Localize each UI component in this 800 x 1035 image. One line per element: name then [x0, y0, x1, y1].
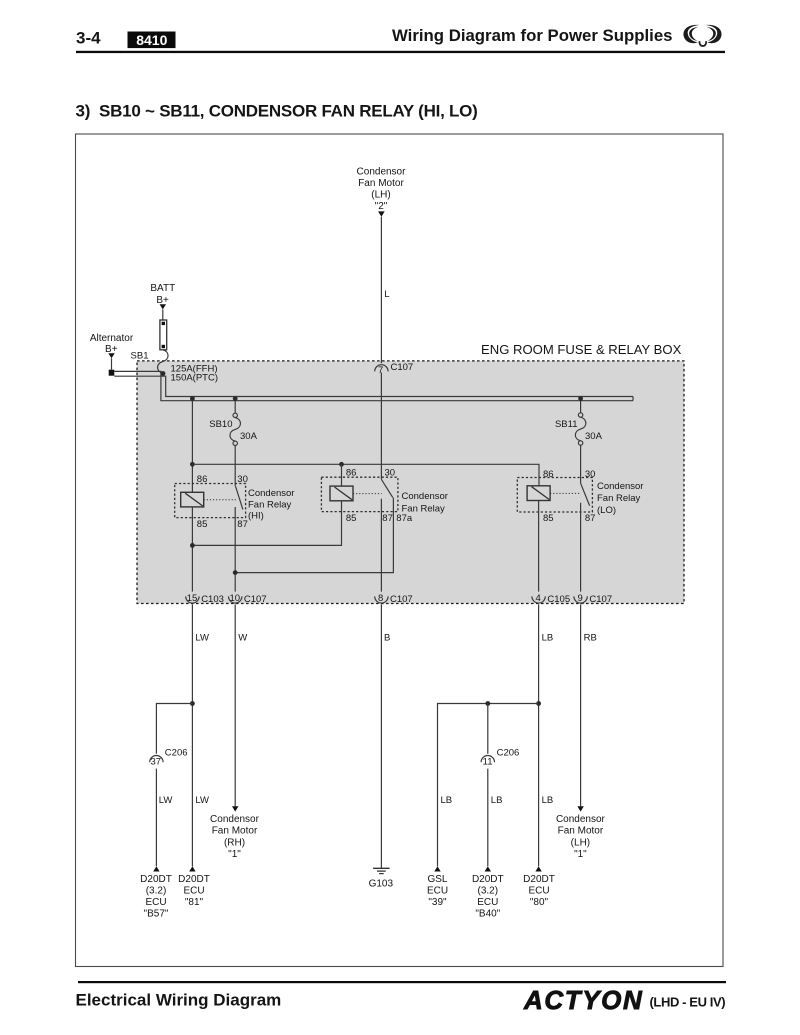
svg-text:"B40": "B40" [475, 908, 500, 919]
connector C206 pin 37 [150, 747, 188, 767]
svg-text:SB10: SB10 [209, 419, 232, 430]
wire relay1 pin87 down [234, 507, 236, 592]
svg-text:(LH): (LH) [371, 190, 390, 201]
wire relay2 pin85 down to link [192, 501, 341, 546]
svg-text:8410: 8410 [136, 32, 167, 48]
svg-text:Fan Motor: Fan Motor [212, 826, 258, 837]
fuse SB10 30A [230, 413, 241, 445]
svg-text:"1": "1" [228, 849, 241, 860]
svg-text:ECU: ECU [145, 897, 166, 908]
svg-text:D20DT: D20DT [523, 874, 555, 885]
wire LB from C105-4 down with branches [538, 604, 540, 866]
connector C107 pin 9 [574, 593, 612, 605]
svg-text:BATT: BATT [150, 283, 175, 294]
svg-text:ACTYON: ACTYON [523, 985, 643, 1015]
junction relay1/relay2 85 link [190, 543, 195, 548]
svg-text:8: 8 [378, 593, 383, 604]
wire LB middle branch upper [487, 704, 489, 754]
svg-text:9: 9 [578, 593, 583, 604]
svg-text:Condensor: Condensor [597, 481, 643, 492]
relay K2 Condensor Fan Relay (middle) [321, 468, 448, 524]
junction coil supply relay2 [339, 462, 344, 467]
wire bus to relay1 pin86 coil [191, 401, 193, 493]
svg-text:B: B [384, 633, 390, 644]
svg-text:C105: C105 [547, 594, 570, 605]
svg-text:L: L [384, 289, 389, 300]
svg-text:W: W [238, 633, 247, 644]
svg-text:Wiring Diagram for Power Suppl: Wiring Diagram for Power Supplies [392, 26, 673, 45]
relay K1 Condensor Fan Relay (HI) [175, 474, 295, 530]
terminal arrow to D20DT ECU 81 [189, 866, 195, 871]
svg-text:86: 86 [543, 469, 554, 480]
node D20DT ECU 81 [178, 874, 210, 908]
svg-text:30A: 30A [240, 431, 258, 442]
svg-text:ECU: ECU [528, 885, 549, 896]
footer rule [78, 981, 726, 983]
svg-text:GSL: GSL [427, 874, 447, 885]
wire LB branch to left [438, 704, 539, 867]
svg-text:85: 85 [197, 519, 208, 530]
wire relay1 pin85 down [191, 507, 193, 592]
terminal arrow to D20DT (3.2) ECU B40 [485, 866, 491, 871]
svg-text:Condensor: Condensor [402, 491, 448, 502]
svg-text:ECU: ECU [427, 885, 448, 896]
connector C105 pin 4 [532, 593, 570, 605]
svg-text:C206: C206 [165, 747, 188, 758]
svg-text:"2": "2" [375, 201, 388, 212]
ssangyong logo right wing [705, 25, 721, 43]
svg-text:Fan Motor: Fan Motor [358, 178, 404, 189]
connector C206 pin 11 [481, 747, 519, 767]
wire relay3 pin85 down [538, 501, 540, 592]
svg-text:(LO): (LO) [597, 505, 616, 516]
wire LW left branch lower [155, 769, 157, 867]
svg-text:G103: G103 [369, 879, 394, 890]
wire alternator to terminal [111, 358, 113, 370]
svg-text:10: 10 [230, 593, 241, 604]
svg-text:86: 86 [346, 468, 357, 479]
svg-text:30: 30 [585, 469, 596, 480]
svg-text:RB: RB [584, 633, 597, 644]
alternator terminal [109, 370, 115, 376]
terminal arrow to D20DT (3.2) ECU B57 [153, 866, 159, 871]
node D20DT ECU 80 [523, 874, 555, 908]
connector C107 pin 10 [229, 593, 267, 605]
svg-text:7: 7 [378, 365, 383, 376]
svg-text:86: 86 [197, 474, 208, 485]
wire relay2 pin87 down [380, 499, 382, 592]
svg-text:150A(PTC): 150A(PTC) [171, 373, 219, 384]
node Condensor Fan Motor (LH) 2 (top) [357, 167, 407, 217]
relay K3 Condensor Fan Relay (LO) [517, 469, 643, 524]
svg-text:30: 30 [385, 468, 396, 479]
svg-text:3-4: 3-4 [76, 29, 101, 48]
heavy bus: alternator feed and main busbar (hollow double line) [114, 371, 633, 400]
junction LB middle branch [485, 701, 490, 706]
junction bus to relay1-86 [190, 396, 195, 401]
svg-text:(3.2): (3.2) [478, 885, 499, 896]
wire LW from C103-15 down with branch [191, 604, 193, 866]
junction coil supply left [190, 462, 195, 467]
connector C107 pin 7 [375, 362, 414, 376]
connector C107 pin 8 [375, 593, 413, 605]
terminal arrow to GSL ECU 39 [434, 866, 440, 871]
svg-text:87: 87 [382, 513, 393, 524]
wire W from C107-10 down [234, 604, 236, 806]
svg-text:Fan Relay: Fan Relay [402, 503, 446, 514]
wire L from C107-7 through bus to relay2 pin30 [380, 373, 382, 480]
node GSL ECU 39 [427, 874, 448, 908]
svg-text:LW: LW [195, 633, 209, 644]
svg-text:30: 30 [237, 474, 248, 485]
ssangyong logo horseshoe [700, 41, 707, 46]
node D20DT (3.2) ECU B40 [472, 874, 504, 920]
wire relay3 pin87 down [580, 503, 582, 592]
fusible link SB1 S-curve [158, 350, 169, 374]
wire SB10 to relay1 pin30 [234, 446, 236, 487]
svg-text:87: 87 [585, 513, 596, 524]
svg-text:ECU: ECU [477, 897, 498, 908]
ENG ROOM FUSE & RELAY BOX enclosure [137, 361, 684, 604]
svg-text:LW: LW [195, 795, 209, 806]
terminal arrow to D20DT ECU 80 [535, 866, 541, 871]
svg-text:C107: C107 [244, 594, 267, 605]
svg-text:ENG ROOM FUSE & RELAY BOX: ENG ROOM FUSE & RELAY BOX [481, 342, 682, 357]
svg-text:C107: C107 [390, 594, 413, 605]
node Condensor Fan Motor (LH) 1 [556, 814, 606, 860]
svg-text:3) SB10 ~ SB11, CONDENSOR FAN: 3) SB10 ~ SB11, CONDENSOR FAN RELAY (HI,… [76, 102, 478, 121]
svg-text:15: 15 [187, 593, 198, 604]
wire BATT to fusible link [162, 309, 164, 320]
svg-text:"1": "1" [574, 849, 587, 860]
wire SB11 to relay3 pin30 [580, 445, 582, 483]
svg-text:Condensor: Condensor [357, 167, 407, 178]
svg-text:"B57": "B57" [144, 908, 169, 919]
svg-text:Fan Relay: Fan Relay [597, 493, 641, 504]
svg-text:87: 87 [237, 519, 248, 530]
label 125A(FFH) 150A(PTC) [171, 363, 219, 383]
wire coil supply rail [192, 464, 539, 486]
svg-text:Condensor: Condensor [556, 814, 606, 825]
svg-text:D20DT: D20DT [178, 874, 210, 885]
svg-text:"80": "80" [530, 897, 549, 908]
svg-text:30A: 30A [585, 431, 603, 442]
wire coil supply to relay2 pin86 [341, 464, 343, 486]
junction bus to SB10 [233, 396, 238, 401]
terminal arrow to condensor fan motor RH [232, 806, 238, 811]
junction relay1-87 / relay2-87a link [233, 570, 238, 575]
wire LB middle branch lower [487, 769, 489, 867]
svg-text:D20DT: D20DT [472, 874, 504, 885]
svg-text:LB: LB [441, 795, 453, 806]
svg-text:Alternator: Alternator [90, 333, 134, 344]
wire RB from C107-9 down [580, 604, 582, 806]
svg-text:SB11: SB11 [555, 419, 578, 430]
svg-text:"81": "81" [185, 897, 204, 908]
wire L from fan motor LH to C107-7 [380, 217, 382, 363]
svg-text:Condensor: Condensor [210, 814, 260, 825]
svg-text:"39": "39" [428, 897, 447, 908]
svg-text:C206: C206 [497, 747, 520, 758]
svg-text:85: 85 [543, 513, 554, 524]
wire LW branch to left [156, 704, 192, 754]
svg-text:C103: C103 [201, 594, 224, 605]
fuse SB11 30A [575, 413, 586, 445]
svg-text:(LH): (LH) [571, 837, 590, 848]
svg-text:Fan Motor: Fan Motor [558, 826, 604, 837]
svg-text:ECU: ECU [183, 885, 204, 896]
svg-text:(RH): (RH) [224, 837, 245, 848]
node D20DT (3.2) ECU B57 [140, 874, 172, 920]
junction LW branch [190, 701, 195, 706]
svg-text:B+: B+ [156, 295, 169, 306]
connector C103 pin 15 [186, 593, 224, 605]
svg-text:(HI): (HI) [248, 511, 264, 522]
svg-text:D20DT: D20DT [140, 874, 172, 885]
svg-text:Condensor: Condensor [248, 488, 294, 499]
svg-text:87a: 87a [396, 513, 413, 524]
svg-text:(LHD - EU IV): (LHD - EU IV) [650, 995, 726, 1010]
header section code box 8410 [128, 32, 176, 49]
junction bus to SB11 [578, 396, 583, 401]
wire B from C107-8 down to ground [380, 604, 382, 868]
junction SB1 output [161, 371, 166, 376]
junction LB branch [536, 701, 541, 706]
svg-text:SB1: SB1 [131, 350, 149, 361]
svg-text:LB: LB [542, 633, 554, 644]
svg-text:11: 11 [483, 756, 493, 767]
node BATT B+ [150, 283, 175, 310]
diagram frame [76, 134, 724, 967]
wire bus to fuse SB11 [580, 401, 582, 413]
ssangyong logo left wing [683, 25, 721, 43]
svg-text:37: 37 [151, 756, 162, 767]
ground G103 [369, 868, 394, 889]
svg-text:(3.2): (3.2) [146, 885, 167, 896]
wire relay2 pin87a down to link [235, 498, 393, 573]
header rule [76, 51, 725, 53]
svg-text:LB: LB [542, 795, 554, 806]
svg-text:C107: C107 [589, 594, 612, 605]
node Alternator B+ [90, 333, 134, 358]
svg-text:85: 85 [346, 513, 357, 524]
svg-text:Electrical Wiring Diagram: Electrical Wiring Diagram [76, 991, 282, 1010]
fusible link SB1 body [160, 320, 167, 350]
svg-text:4: 4 [536, 593, 541, 604]
svg-text:C107: C107 [391, 362, 414, 373]
terminal arrow to condensor fan motor LH [577, 806, 583, 811]
wire bus to fuse SB10 [234, 401, 236, 413]
svg-text:LB: LB [491, 795, 503, 806]
svg-text:Fan Relay: Fan Relay [248, 499, 292, 510]
svg-text:LW: LW [159, 795, 173, 806]
node Condensor Fan Motor (RH) 1 [210, 814, 260, 860]
